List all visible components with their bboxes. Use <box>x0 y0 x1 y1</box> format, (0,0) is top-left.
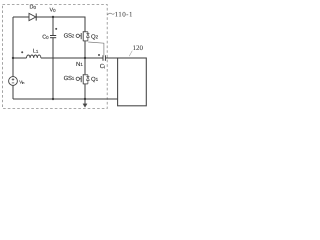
ground <box>84 99 86 104</box>
body diode <box>87 75 89 77</box>
wire Ci to box 120 <box>105 57 117 59</box>
middle wire to L1 <box>13 57 27 59</box>
node middle-left <box>12 57 14 59</box>
wire Q1 source to ground rail <box>84 84 86 99</box>
svg-text:V0: V0 <box>50 8 57 14</box>
drain stub <box>83 31 88 33</box>
transistor Q1 <box>76 74 89 84</box>
channel bar <box>82 31 84 41</box>
gate bar <box>80 76 82 82</box>
channel bar <box>82 74 84 84</box>
drain stub <box>83 74 88 76</box>
gate bar <box>80 33 82 39</box>
svg-text:C0: C0 <box>42 35 49 41</box>
svg-text:L1: L1 <box>33 49 39 55</box>
wire Q2 source to N1 <box>84 41 86 58</box>
label 110-1 <box>108 13 115 15</box>
svg-text:N1: N1 <box>76 61 83 68</box>
source stub <box>83 83 88 85</box>
capacitor Ci <box>102 55 104 61</box>
thin wire Q2 source to Ci top <box>88 42 104 55</box>
wire top: diode to Q2 drain corner <box>36 17 85 32</box>
svg-text:Q2: Q2 <box>91 33 99 40</box>
load box 120 <box>118 58 147 106</box>
body diode <box>87 32 89 34</box>
polarity dot near L1 <box>21 51 23 53</box>
node Q1-ground <box>84 98 86 100</box>
capacitor C0 <box>50 35 56 37</box>
diode D0 <box>29 13 36 20</box>
node C0-ground <box>52 98 54 100</box>
middle wire L1 to Ci <box>41 57 103 59</box>
svg-text:120: 120 <box>133 44 144 52</box>
inductor L1 <box>27 55 41 58</box>
svg-text:GS1: GS1 <box>64 75 75 82</box>
wire C0 bottom to ground rail <box>52 38 54 99</box>
transistor Q2 <box>76 31 89 41</box>
svg-text:GS2: GS2 <box>64 32 75 39</box>
svg-text:Vin: Vin <box>19 80 24 85</box>
wire top: left corner to diode <box>13 16 29 18</box>
polarity dot near C0 <box>55 28 57 30</box>
svg-text:D0: D0 <box>30 4 37 10</box>
source Vin <box>9 77 18 86</box>
ground rail <box>13 98 118 100</box>
svg-text:Q1: Q1 <box>91 76 99 83</box>
source stub <box>83 40 88 42</box>
left rail <box>12 17 14 77</box>
gate source circle GS1 <box>76 77 79 80</box>
wire N1 to Q1 drain <box>84 58 86 74</box>
svg-text:Ci: Ci <box>100 63 105 70</box>
polarity dot near Ci <box>98 54 100 56</box>
dashed converter block 110-1 <box>3 5 108 109</box>
wire C0 branch from V0 node <box>52 17 54 35</box>
node N1 <box>84 57 86 59</box>
left rail below Vin to ground rail corner <box>12 85 14 99</box>
node V0 <box>52 16 54 18</box>
svg-text:110-1: 110-1 <box>115 11 133 19</box>
gate source circle GS2 <box>76 34 79 37</box>
